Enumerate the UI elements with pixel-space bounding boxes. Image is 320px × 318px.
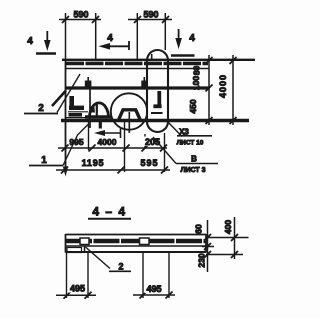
panel left edge [65, 60, 67, 167]
row1 tick a [62, 145, 69, 152]
svg-text:100: 100 [191, 76, 201, 90]
svg-text:1: 1 [41, 155, 47, 166]
svg-text:2: 2 [38, 103, 44, 114]
svg-text:495: 495 [70, 284, 85, 294]
svg-text:В: В [191, 155, 197, 164]
dim 590 right: dimension line [128, 16, 172, 23]
callout 1: leader [29, 124, 89, 166]
divider below plate 1 [84, 246, 86, 253]
section ext vertical a [66, 253, 68, 299]
slab top line [62, 59, 255, 61]
panel bottom thick line [61, 119, 249, 123]
svg-text:595: 595 [140, 158, 158, 168]
svg-text:2: 2 [118, 262, 123, 272]
svg-text:4: 4 [189, 33, 195, 44]
L profile base line [151, 112, 163, 114]
rib below dome [99, 121, 102, 129]
left channel profile thin line [68, 111, 88, 113]
section bar plate 1 [80, 238, 89, 245]
section bar hatch band [66, 239, 206, 244]
section dim 495 left: line [56, 294, 96, 296]
tick outer bottom [230, 117, 237, 124]
495 left tick a [64, 292, 71, 299]
left channel profile upper flange [69, 106, 84, 110]
lower dim row 2: line [56, 169, 170, 171]
section right ext line bottom [206, 254, 243, 256]
row1 tick c [123, 145, 130, 152]
weld tick inside stadium top [151, 54, 153, 61]
svg-text:400: 400 [223, 220, 233, 234]
tick s-outer top [231, 234, 238, 241]
section right ext line top [206, 237, 249, 239]
extension vertical x124 below panel [124, 122, 126, 172]
svg-text:ЛИСТ 3: ЛИСТ 3 [181, 167, 206, 174]
row2 tick c [161, 167, 168, 174]
bolt 1 on mid line [85, 77, 92, 88]
callout B: leader [153, 137, 176, 164]
bolt 2 on mid line [141, 77, 147, 88]
495 right tick a [140, 292, 147, 299]
section dim 495 right: line [133, 294, 175, 296]
tick s-inner bottom [204, 251, 211, 258]
section bar mid line [66, 245, 207, 247]
dome base thick line [85, 115, 112, 119]
channel profile inside circle [119, 110, 141, 120]
dim 590 right: extension line left [136, 13, 138, 60]
dome base thin extension [66, 117, 88, 119]
495 right tick b [166, 292, 173, 299]
495 left tick b [85, 292, 92, 299]
callout 2 section: underline [109, 270, 131, 272]
svg-text:4000: 4000 [98, 137, 117, 147]
tick s-inner top [204, 234, 211, 241]
svg-text:ЛИСТ 10: ЛИСТ 10 [177, 140, 204, 147]
section marker 4 top-right: arrow down [171, 29, 195, 56]
vertical rib line left of dome [89, 88, 91, 129]
svg-text:495: 495 [146, 284, 161, 294]
row2 tick a [61, 167, 68, 174]
svg-text:1195: 1195 [82, 158, 105, 168]
dome arch [90, 103, 109, 118]
section ext vertical b [87, 253, 89, 299]
mid line (panel shelf) [66, 86, 210, 89]
svg-text:80: 80 [192, 66, 202, 76]
extension vertical x145 below panel [144, 134, 146, 149]
section bar bottom line [66, 251, 207, 253]
left channel profile vertical stroke [69, 96, 74, 108]
row2 end arrow down [63, 167, 68, 177]
callout X3: underline [177, 135, 212, 137]
lower dim row 1: line [58, 147, 167, 149]
tick inner mid [206, 85, 213, 92]
dim 590 left: extension line left [65, 13, 67, 60]
section bar left bottom box [67, 248, 82, 253]
dim 590 left: extension line right [95, 13, 97, 60]
section title underline [88, 218, 131, 220]
dome interior centerline [96, 105, 98, 117]
row1 tick d [142, 145, 149, 152]
L profile inside stadium vertical [157, 91, 161, 108]
row2 tick b [118, 167, 125, 174]
svg-text:4000: 4000 [218, 74, 228, 98]
label 4000 with arrow [94, 128, 121, 138]
section inner dim line [207, 220, 209, 272]
section bar plate 2 [140, 238, 150, 245]
tick s-inner mid [204, 243, 211, 250]
svg-text:450: 450 [188, 99, 198, 113]
label 495 right [145, 284, 164, 295]
row1 tick e [160, 145, 167, 152]
svg-text:60: 60 [194, 224, 204, 234]
callout B: underline [176, 163, 218, 165]
section bar left edge [65, 234, 67, 253]
section bar right edge [205, 234, 207, 253]
slab hatch band [66, 62, 208, 66]
section marker 4 middle: arrow left [99, 41, 130, 50]
left channel profile lower flange [69, 113, 83, 117]
tick s-outer bottom [231, 251, 238, 258]
svg-text:Х3: Х3 [179, 128, 189, 137]
section right ext line mid [202, 246, 214, 248]
right inner dimension line (80/100/450) [208, 55, 210, 125]
section bar top line [66, 234, 207, 236]
section marker 4 top-left: arrow down [36, 31, 56, 54]
dim 590 right: extension line right [164, 13, 166, 50]
row1 tick b [89, 145, 96, 152]
svg-text:4 – 4: 4 – 4 [92, 205, 126, 219]
callout 2: leaders [24, 74, 80, 114]
svg-text:4: 4 [27, 36, 33, 47]
dome interior dark blob [90, 105, 95, 113]
svg-text:590: 590 [143, 10, 158, 20]
label 495 left [68, 283, 87, 294]
extension vertical x164 below panel [164, 133, 166, 172]
svg-text:4: 4 [107, 33, 113, 44]
extension vertical x88 below panel [88, 122, 90, 150]
label 205 [143, 137, 162, 148]
stadium slot outline [147, 50, 168, 132]
svg-text:995: 995 [69, 137, 83, 147]
tick inner bottom [206, 117, 213, 124]
section ext vertical d [168, 253, 170, 299]
L profile inside stadium foot [153, 104, 161, 108]
section outer dim line [234, 217, 236, 259]
callout X3: leader [168, 122, 183, 137]
detail circle [111, 93, 147, 129]
callout 2 section: leader [86, 247, 111, 269]
section ext vertical c [142, 253, 144, 299]
tick outer top [230, 57, 237, 64]
right outer dimension line (4000) [232, 55, 234, 125]
svg-text:590: 590 [73, 10, 88, 20]
tick inner top [206, 57, 213, 64]
slab bottom line [66, 68, 209, 70]
centerline inside circle [128, 112, 130, 133]
dim 590 left: dimension line [59, 16, 101, 23]
svg-text:230: 230 [197, 253, 207, 267]
